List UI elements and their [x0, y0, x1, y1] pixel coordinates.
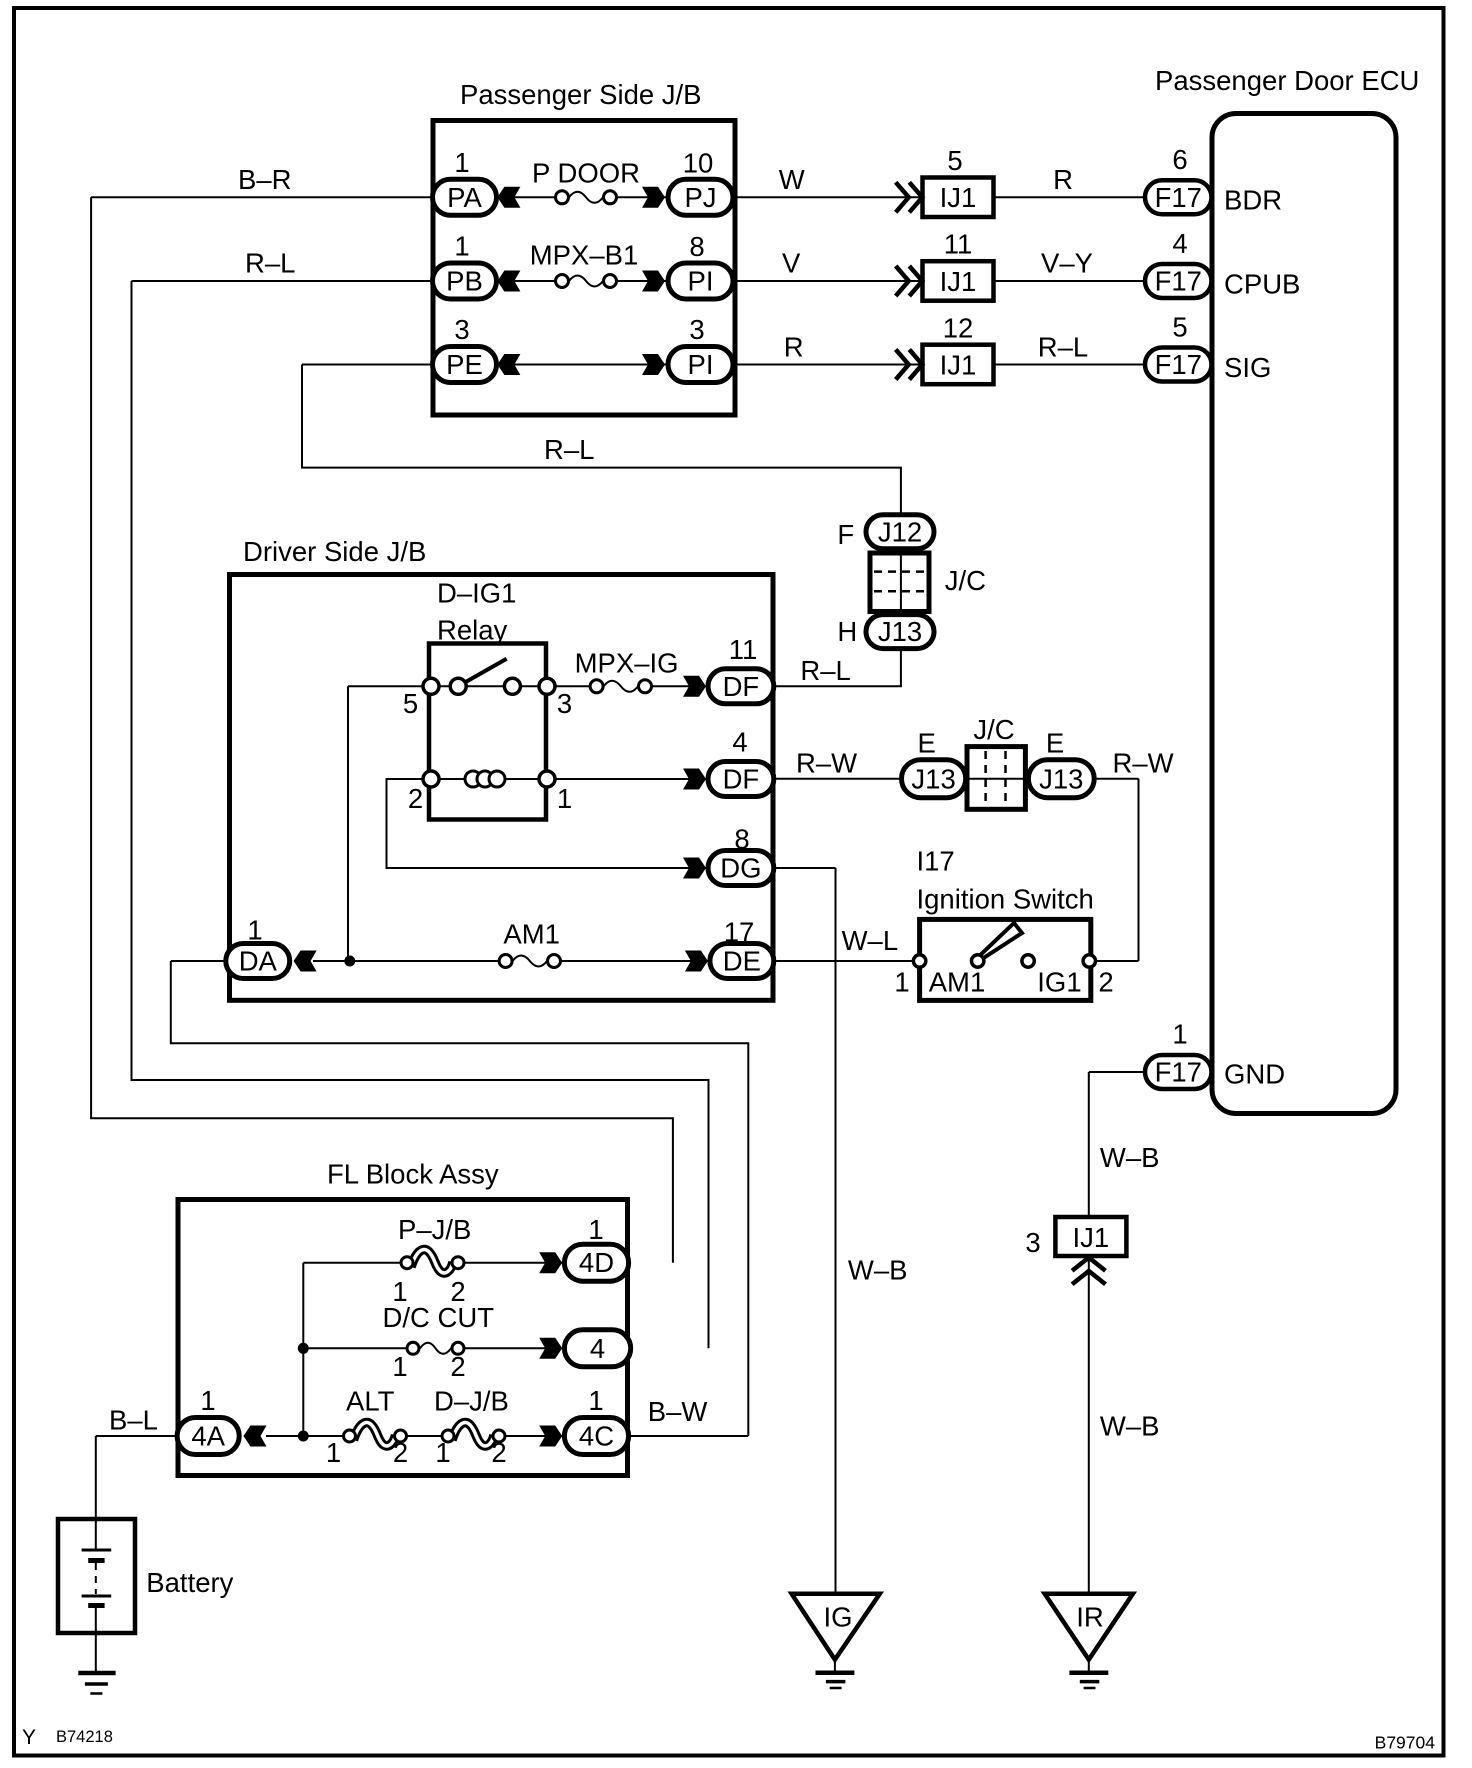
svg-text:PJ: PJ: [684, 182, 716, 213]
svg-text:P DOOR: P DOOR: [532, 158, 640, 189]
svg-text:W: W: [779, 164, 805, 195]
svg-text:ALT: ALT: [346, 1385, 395, 1416]
svg-text:10: 10: [683, 147, 714, 178]
svg-text:W–B: W–B: [848, 1255, 908, 1286]
svg-text:F17: F17: [1155, 349, 1202, 380]
svg-text:2: 2: [1098, 966, 1113, 997]
svg-text:V–Y: V–Y: [1041, 248, 1093, 279]
svg-text:MPX–B1: MPX–B1: [530, 240, 639, 271]
svg-text:17: 17: [724, 916, 755, 947]
svg-text:8: 8: [689, 231, 704, 262]
svg-text:8: 8: [734, 824, 749, 855]
svg-text:2: 2: [491, 1437, 506, 1468]
svg-text:AM1: AM1: [503, 918, 560, 949]
svg-text:BDR: BDR: [1224, 184, 1282, 215]
svg-text:R–L: R–L: [245, 248, 295, 279]
svg-text:4: 4: [732, 727, 747, 758]
svg-text:2: 2: [408, 783, 423, 814]
svg-text:R: R: [1053, 164, 1073, 195]
svg-text:E: E: [1046, 728, 1064, 759]
svg-text:GND: GND: [1224, 1058, 1285, 1089]
svg-text:J13: J13: [911, 763, 955, 794]
svg-text:Passenger Side J/B: Passenger Side J/B: [460, 79, 702, 110]
svg-text:J/C: J/C: [945, 565, 986, 596]
svg-text:W–B: W–B: [1100, 1142, 1160, 1173]
svg-text:DE: DE: [723, 946, 761, 977]
svg-text:B–L: B–L: [109, 1404, 158, 1435]
svg-text:PI: PI: [688, 266, 714, 297]
svg-text:PA: PA: [447, 182, 482, 213]
svg-text:R–L: R–L: [800, 655, 850, 686]
svg-text:PB: PB: [446, 266, 483, 297]
svg-text:11: 11: [729, 634, 758, 665]
svg-text:Battery: Battery: [146, 1567, 233, 1598]
svg-text:1: 1: [435, 1437, 450, 1468]
svg-text:F17: F17: [1155, 182, 1202, 213]
svg-text:1: 1: [454, 147, 469, 178]
svg-text:B–R: B–R: [238, 164, 292, 195]
svg-text:1: 1: [454, 231, 469, 262]
svg-text:I17: I17: [917, 846, 955, 877]
svg-text:IG1: IG1: [1037, 966, 1081, 997]
svg-text:J/C: J/C: [973, 714, 1014, 745]
svg-text:4C: 4C: [579, 1421, 614, 1452]
svg-text:PI: PI: [688, 349, 714, 380]
svg-text:V: V: [782, 248, 801, 279]
svg-text:2: 2: [450, 1276, 465, 1307]
svg-text:J13: J13: [1039, 763, 1083, 794]
svg-text:R–W: R–W: [796, 748, 857, 779]
svg-text:DF: DF: [723, 671, 760, 702]
svg-text:1: 1: [557, 783, 572, 814]
svg-text:IG: IG: [823, 1602, 852, 1633]
svg-text:R: R: [784, 331, 804, 362]
svg-text:Passenger Door ECU: Passenger Door ECU: [1155, 65, 1419, 96]
svg-text:4: 4: [1172, 228, 1187, 259]
svg-text:J13: J13: [878, 616, 922, 647]
svg-text:P–J/B: P–J/B: [398, 1214, 471, 1245]
svg-text:D–J/B: D–J/B: [434, 1385, 509, 1416]
svg-text:1: 1: [588, 1385, 603, 1416]
svg-text:F17: F17: [1155, 266, 1202, 297]
svg-text:IJ1: IJ1: [940, 349, 977, 380]
svg-text:AM1: AM1: [929, 966, 986, 997]
svg-text:5: 5: [403, 688, 418, 719]
svg-text:PE: PE: [446, 349, 483, 380]
svg-text:1: 1: [326, 1437, 341, 1468]
svg-text:IJ1: IJ1: [940, 182, 977, 213]
svg-text:5: 5: [1172, 311, 1187, 342]
svg-text:6: 6: [1172, 144, 1187, 175]
svg-text:B74218: B74218: [56, 1728, 113, 1746]
svg-text:1: 1: [894, 966, 909, 997]
svg-text:1: 1: [392, 1276, 407, 1307]
svg-text:4D: 4D: [579, 1247, 614, 1278]
svg-text:11: 11: [944, 229, 973, 260]
svg-text:1: 1: [200, 1385, 215, 1416]
svg-text:1: 1: [1172, 1019, 1187, 1050]
svg-text:3: 3: [689, 314, 704, 345]
svg-text:R–L: R–L: [1038, 331, 1088, 362]
svg-text:R–L: R–L: [544, 434, 594, 465]
svg-text:5: 5: [947, 145, 962, 176]
svg-text:1: 1: [588, 1214, 603, 1245]
svg-text:D–IG1: D–IG1: [437, 578, 516, 609]
svg-text:FL Block Assy: FL Block Assy: [327, 1159, 499, 1190]
svg-text:IJ1: IJ1: [940, 266, 977, 297]
svg-text:12: 12: [943, 313, 974, 344]
svg-text:2: 2: [393, 1437, 408, 1468]
svg-text:Y: Y: [22, 1726, 36, 1749]
svg-text:3: 3: [557, 688, 572, 719]
svg-text:1: 1: [392, 1351, 407, 1382]
svg-text:DG: DG: [720, 853, 761, 884]
svg-text:3: 3: [454, 314, 469, 345]
svg-text:B–W: B–W: [648, 1396, 708, 1427]
svg-text:J12: J12: [878, 516, 922, 547]
svg-text:3: 3: [1025, 1227, 1040, 1258]
svg-text:4A: 4A: [191, 1421, 225, 1452]
svg-text:SIG: SIG: [1224, 352, 1271, 383]
svg-text:DA: DA: [239, 946, 278, 977]
svg-text:Relay: Relay: [437, 614, 508, 645]
svg-text:DF: DF: [723, 764, 760, 795]
svg-text:F17: F17: [1155, 1057, 1202, 1088]
svg-text:1: 1: [247, 915, 262, 946]
svg-text:IR: IR: [1076, 1602, 1104, 1633]
svg-text:H: H: [837, 616, 857, 647]
svg-text:W–L: W–L: [842, 925, 899, 956]
svg-text:Driver Side J/B: Driver Side J/B: [243, 536, 426, 567]
svg-text:CPUB: CPUB: [1224, 268, 1300, 299]
svg-text:2: 2: [450, 1351, 465, 1382]
svg-text:IJ1: IJ1: [1073, 1222, 1110, 1253]
svg-text:F: F: [837, 519, 854, 550]
svg-text:W–B: W–B: [1100, 1411, 1160, 1442]
svg-text:MPX–IG: MPX–IG: [575, 647, 679, 678]
svg-text:4: 4: [590, 1333, 605, 1364]
svg-text:B79704: B79704: [1375, 1733, 1436, 1753]
svg-text:R–W: R–W: [1113, 748, 1174, 779]
svg-text:E: E: [918, 728, 936, 759]
svg-text:Ignition Switch: Ignition Switch: [917, 884, 1094, 915]
